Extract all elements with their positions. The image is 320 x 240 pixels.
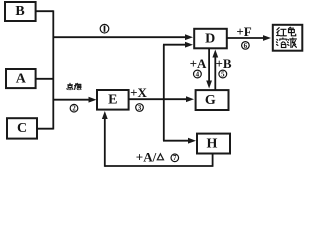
svg-text:+F: +F: [236, 24, 251, 39]
wire trunk vertical: [52, 10, 54, 129]
svg-text:6: 6: [244, 42, 248, 50]
arrow 7: H loop up into E: [102, 111, 108, 167]
svg-text:B: B: [15, 4, 24, 19]
svg-text:+X: +X: [130, 85, 147, 100]
node circled 6: [242, 42, 250, 50]
node circled 1: [100, 24, 109, 33]
wire A to trunk: [36, 78, 54, 80]
svg-text:5: 5: [221, 70, 225, 78]
box A: [6, 69, 36, 88]
node circled 7: [171, 154, 179, 162]
svg-text:+A: +A: [190, 56, 207, 71]
label dianran (点燃): [67, 83, 81, 89]
svg-text:+B: +B: [215, 56, 231, 71]
wire bottom horizontal: [105, 165, 214, 167]
arrow 4: D down to G (+A): [206, 48, 212, 88]
svg-text:H: H: [207, 136, 218, 151]
wire H bottom down: [212, 154, 214, 167]
arrow 6: D to red solution (+F): [227, 35, 271, 41]
node circled 4: [194, 70, 202, 78]
svg-text:3: 3: [138, 104, 142, 112]
arrow junction to H: [163, 138, 196, 144]
label 色: [288, 27, 295, 36]
arrow 1: trunk to D: [53, 34, 193, 40]
label 溶: [276, 38, 286, 48]
svg-text:A: A: [16, 71, 27, 86]
arrow 2: trunk to E (ignite): [53, 97, 96, 103]
node circled 5: [219, 70, 227, 78]
wire C to trunk: [37, 128, 53, 130]
box H: [197, 134, 230, 154]
label 红: [277, 28, 287, 36]
label 液: [287, 38, 296, 48]
label +A/triangle: [136, 149, 164, 164]
wire junction vertical (E branch): [163, 45, 165, 141]
box B: [5, 2, 36, 21]
node circled 2: [70, 104, 78, 112]
svg-text:C: C: [17, 121, 27, 136]
wire B to trunk: [36, 10, 54, 12]
box D: [194, 29, 227, 49]
svg-text:7: 7: [173, 154, 177, 162]
box red-solution: [273, 25, 303, 51]
arrow 5: G up to D (+B): [212, 50, 218, 91]
svg-text:4: 4: [196, 70, 200, 78]
box C: [7, 118, 37, 138]
svg-text:G: G: [205, 93, 216, 108]
arrow junction to D: [163, 42, 193, 48]
svg-text:2: 2: [72, 105, 76, 113]
svg-text:E: E: [108, 93, 117, 108]
arrow 3: E to G (+X): [129, 96, 194, 102]
box E: [97, 90, 129, 110]
svg-text:+A/: +A/: [136, 149, 157, 164]
node circled 3: [136, 104, 144, 112]
svg-text:D: D: [205, 31, 215, 46]
box G: [196, 90, 229, 110]
